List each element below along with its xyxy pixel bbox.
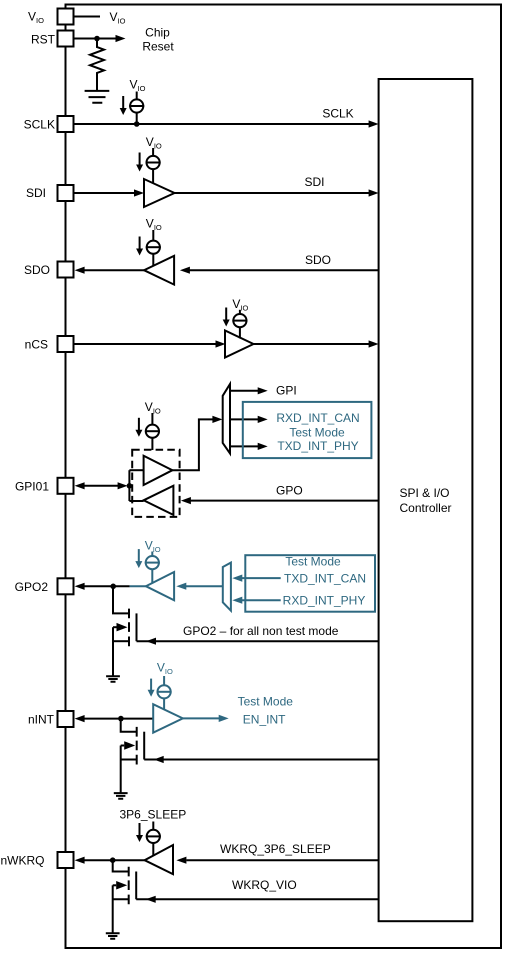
svg-text:VIO: VIO	[146, 217, 162, 233]
pin GPI01	[15, 478, 74, 494]
wire nINT to pin	[75, 715, 154, 722]
wire nWKRQ to pin	[75, 857, 145, 864]
pin nCS	[25, 336, 74, 352]
current source I3 (SDO pull)	[136, 217, 162, 266]
buffer U4 (nCS input)	[225, 331, 254, 358]
buffer U9 (nWKRQ output)	[145, 845, 173, 874]
wire SCLK to controller	[74, 107, 379, 128]
wire SDO from controller	[180, 253, 379, 274]
node nWKRQ junction	[110, 857, 116, 863]
svg-text:GPO2 – for all non test mode: GPO2 – for all non test mode	[183, 624, 339, 638]
pin SDI	[26, 185, 74, 201]
buffer U6 (GPO output)	[129, 486, 173, 515]
svg-text:nCS: nCS	[25, 338, 48, 352]
pin nINT	[28, 711, 74, 727]
svg-text:Test Mode: Test Mode	[238, 695, 294, 709]
svg-text:SDO: SDO	[305, 253, 331, 267]
svg-text:GPI: GPI	[276, 384, 297, 398]
current source I8 (3P6_SLEEP)	[120, 807, 187, 855]
wire GPO2 to pin	[75, 583, 130, 590]
wire SDI to controller	[175, 175, 379, 197]
pin GPO2	[15, 578, 74, 594]
current source I6 (GPO2, teal)	[135, 539, 160, 584]
ground (GPO2 FET)	[106, 676, 120, 682]
svg-text:Chip: Chip	[145, 25, 170, 39]
current source I5 (GPI01 pull)	[135, 400, 160, 450]
node nINT junction	[118, 716, 124, 722]
svg-text:SDO: SDO	[24, 263, 50, 277]
svg-text:VIO: VIO	[157, 661, 173, 677]
transistor Q2 (nINT pull-down)	[121, 719, 145, 794]
wire GPO2 gate from controller	[137, 624, 379, 645]
wire SDI in	[74, 189, 145, 196]
svg-text:VIO: VIO	[28, 10, 44, 26]
buffer U5 (GPI01 input)	[129, 456, 172, 485]
pin SCLK	[24, 116, 74, 132]
wire SDO to pin	[75, 267, 144, 274]
buffer U2 (SDI input)	[144, 179, 175, 207]
wire RXD_INT_CAN	[230, 416, 268, 423]
svg-text:nINT: nINT	[28, 712, 55, 726]
transistor Q1 (GPO2 pull-down)	[113, 586, 137, 676]
svg-text:SDI: SDI	[304, 175, 324, 189]
wire nINT gate from controller	[144, 756, 378, 763]
current source I1 (SCLK pull)	[120, 78, 146, 122]
wire RST to Chip Reset	[74, 25, 175, 53]
test mode box 2	[245, 554, 375, 611]
svg-text:Test Mode: Test Mode	[289, 425, 345, 439]
svg-text:SPI & I/O: SPI & I/O	[400, 486, 450, 500]
svg-text:GPO: GPO	[276, 483, 303, 497]
current source I2 (SDI pull)	[136, 135, 162, 184]
transistor Q3 (nWKRQ pull-down)	[113, 860, 137, 933]
wire WKRQ_VIO from controller	[136, 878, 378, 903]
wire TXD_INT_CAN to mux (teal)	[232, 575, 280, 582]
svg-text:TXD_INT_CAN: TXD_INT_CAN	[284, 572, 366, 586]
svg-text:SDI: SDI	[26, 186, 46, 200]
wire GPO from controller	[181, 483, 379, 504]
svg-text:VIO: VIO	[110, 10, 126, 26]
node SCLK junction	[134, 121, 140, 127]
resistor R1 pull-up on RST	[90, 39, 104, 78]
svg-text:Reset: Reset	[142, 40, 174, 54]
node GPO2 junction	[110, 584, 116, 590]
wire GPI01 buffer to mux	[172, 416, 222, 470]
wire GPI01 bidirectional	[75, 482, 128, 489]
svg-text:TXD_INT_PHY: TXD_INT_PHY	[277, 439, 358, 453]
svg-text:WKRQ_3P6_SLEEP: WKRQ_3P6_SLEEP	[220, 842, 331, 856]
svg-text:VIO: VIO	[130, 78, 146, 94]
ground (nWKRQ FET)	[106, 933, 120, 939]
mux M2 (GPO2 test mux, teal)	[223, 563, 231, 611]
pin RST	[31, 31, 74, 47]
svg-text:SCLK: SCLK	[322, 107, 353, 121]
buffer U8 (nINT test input, teal)	[153, 704, 183, 732]
svg-text:GPI01: GPI01	[15, 479, 49, 493]
wire TXD_INT_PHY	[230, 443, 268, 450]
wire VIO	[74, 10, 126, 26]
wire nCS in	[74, 340, 226, 347]
svg-text:GPO2: GPO2	[15, 580, 49, 594]
dashed IO cell box	[132, 450, 179, 517]
test mode box 1	[243, 402, 372, 458]
wire EN_INT (teal)	[183, 695, 293, 727]
svg-text:RXD_INT_PHY: RXD_INT_PHY	[283, 594, 366, 608]
pin SDO	[24, 262, 74, 278]
mux M1 (GPI demux)	[223, 384, 230, 453]
node GPI01 junction	[127, 470, 133, 501]
svg-text:Test Mode: Test Mode	[285, 554, 341, 568]
svg-text:EN_INT: EN_INT	[243, 713, 286, 727]
current source I4 (nCS pull)	[223, 297, 249, 339]
svg-text:Controller: Controller	[400, 501, 452, 515]
SPI &amp; I/O Controller block U1	[379, 79, 473, 921]
pin nWKRQ	[1, 852, 74, 868]
node RST junction	[94, 36, 100, 42]
current source I7 (nINT, teal)	[148, 661, 173, 710]
svg-text:RXD_INT_CAN: RXD_INT_CAN	[276, 411, 359, 425]
wire nCS to controller	[254, 340, 379, 347]
svg-text:SCLK: SCLK	[24, 118, 55, 132]
buffer U7 (GPO2 test output, teal)	[130, 572, 175, 600]
buffer U3 (SDO output)	[144, 256, 174, 285]
svg-text:3P6_SLEEP: 3P6_SLEEP	[120, 807, 187, 821]
ground (nINT FET)	[114, 793, 128, 799]
wire WKRQ_3P6_SLEEP from controller	[176, 842, 378, 864]
svg-text:WKRQ_VIO: WKRQ_VIO	[232, 878, 297, 892]
pin VIO	[28, 9, 74, 26]
ground (RST resistor)	[85, 78, 110, 103]
svg-text:nWKRQ: nWKRQ	[1, 853, 45, 867]
svg-text:RST: RST	[31, 32, 56, 46]
wire mux to GPO2 buffer (teal)	[176, 583, 223, 590]
wire RXD_INT_PHY to mux (teal)	[232, 597, 280, 604]
wire GPI	[230, 384, 297, 398]
